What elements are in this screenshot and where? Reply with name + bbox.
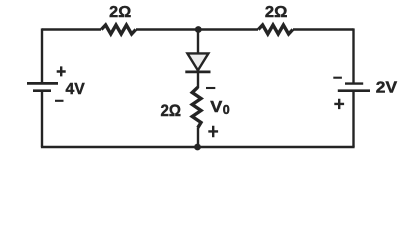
diode D1 <box>185 53 210 72</box>
resistor R1 <box>101 25 136 34</box>
resistor R3 (vertical) <box>192 87 201 127</box>
resistor R2 <box>258 25 293 34</box>
label V0 <box>210 99 229 117</box>
node A top junction dot <box>195 26 202 33</box>
label V1 plus sign <box>57 66 66 76</box>
svg-text:2V: 2V <box>376 79 398 96</box>
wire diode anode <box>197 30 199 54</box>
label V1 minus sign <box>55 100 64 102</box>
svg-text:2Ω: 2Ω <box>265 4 288 21</box>
svg-text:V: V <box>210 99 222 116</box>
wire left vertical upper <box>41 28 43 83</box>
svg-text:2Ω: 2Ω <box>161 102 182 120</box>
wire right vertical lower <box>352 91 354 147</box>
label V2 minus sign <box>333 77 342 79</box>
svg-text:0: 0 <box>223 103 230 117</box>
wire diode cathode to resistor <box>197 72 199 88</box>
wire top-left segment <box>42 28 101 30</box>
battery V1 4V <box>27 83 58 90</box>
svg-text:4V: 4V <box>66 81 86 98</box>
wire right vertical upper <box>352 28 354 84</box>
svg-text:2Ω: 2Ω <box>109 4 131 21</box>
node B bottom junction dot <box>194 144 201 151</box>
wire bottom <box>41 146 355 148</box>
label V0 minus sign <box>206 87 215 89</box>
label V0 plus sign <box>208 126 218 137</box>
battery V2 2V <box>338 84 370 91</box>
label V2 plus sign <box>334 99 344 109</box>
wire top-right segment <box>293 28 354 30</box>
wire top-middle segment <box>136 28 258 30</box>
wire left vertical lower <box>41 91 43 147</box>
wire resistor R3 to bottom node <box>197 128 199 148</box>
